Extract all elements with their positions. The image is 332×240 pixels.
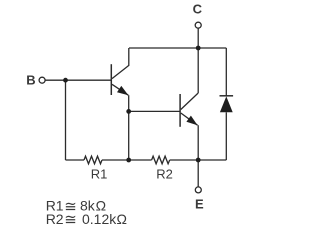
transistor Q2 emitter lead: [181, 113, 198, 125]
svg-text:E: E: [195, 197, 204, 212]
resistor R2: [152, 156, 170, 164]
diode D1 anode triangle: [220, 96, 233, 112]
resistor R1: [84, 156, 102, 164]
wire: top rail from Q1 collector to diode branch: [129, 47, 226, 49]
transistor Q1 emitter lead: [112, 84, 128, 95]
wire: Q2 emitter vertical down to bottom rail: [197, 125, 199, 160]
wire: right branch bottom (diode anode to bottom rail): [225, 112, 227, 160]
transistor Q1 collector lead: [112, 48, 129, 79]
svg-text:R2≅0.12kΩ: R2≅0.12kΩ: [46, 211, 127, 229]
wire: bottom rail right segment (R2 to diode branch): [170, 159, 227, 161]
terminal B circle: [39, 77, 45, 83]
diode D1 cathode bar: [220, 95, 234, 97]
node: emitter junction on bottom rail: [196, 158, 201, 163]
svg-text:C: C: [193, 1, 203, 16]
transistor Q1 emitter arrow: [117, 86, 128, 95]
wire: left vertical branch from B node down to bottom rail: [65, 80, 67, 160]
wire: base lead from terminal B to Q1: [45, 79, 111, 81]
wire: bottom rail left segment (B node to R1): [66, 159, 85, 161]
wire: Q1 emitter vertical down to node A and rail: [128, 95, 130, 160]
terminal C circle: [195, 22, 201, 28]
node: R1/R2 junction on bottom rail: [126, 158, 131, 163]
transistor Q1 base bar: [110, 64, 112, 95]
svg-text:R1: R1: [91, 167, 108, 182]
svg-text:B: B: [26, 73, 35, 88]
svg-text:R2: R2: [156, 167, 173, 182]
wire: right branch top (node C to diode cathode): [225, 48, 227, 96]
wire: terminal E stem: [197, 160, 199, 187]
wire: bottom rail middle segment (R1 to R2): [102, 159, 152, 161]
transistor Q2 collector lead: [181, 93, 198, 110]
wire: Q2 collector vertical up to node C: [197, 48, 199, 93]
node: B junction: [63, 78, 68, 83]
node A: Q1 emitter / Q2 base junction: [126, 109, 131, 114]
terminal E circle: [195, 187, 201, 193]
transistor Q2 base bar: [179, 94, 181, 127]
node: collector junction at C: [196, 46, 201, 51]
transistor Q2 emitter arrow: [186, 116, 197, 126]
wire: Q2 base lead from node A: [129, 110, 180, 112]
wire: terminal C stem: [197, 28, 199, 48]
